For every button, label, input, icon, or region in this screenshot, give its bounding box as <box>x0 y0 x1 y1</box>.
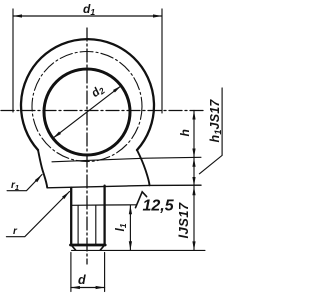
svg-text:lJS17: lJS17 <box>176 202 191 238</box>
svg-text:d: d <box>78 273 86 287</box>
svg-text:12,5: 12,5 <box>143 198 175 215</box>
svg-text:h1JS17: h1JS17 <box>208 99 223 143</box>
svg-text:h: h <box>178 129 192 136</box>
